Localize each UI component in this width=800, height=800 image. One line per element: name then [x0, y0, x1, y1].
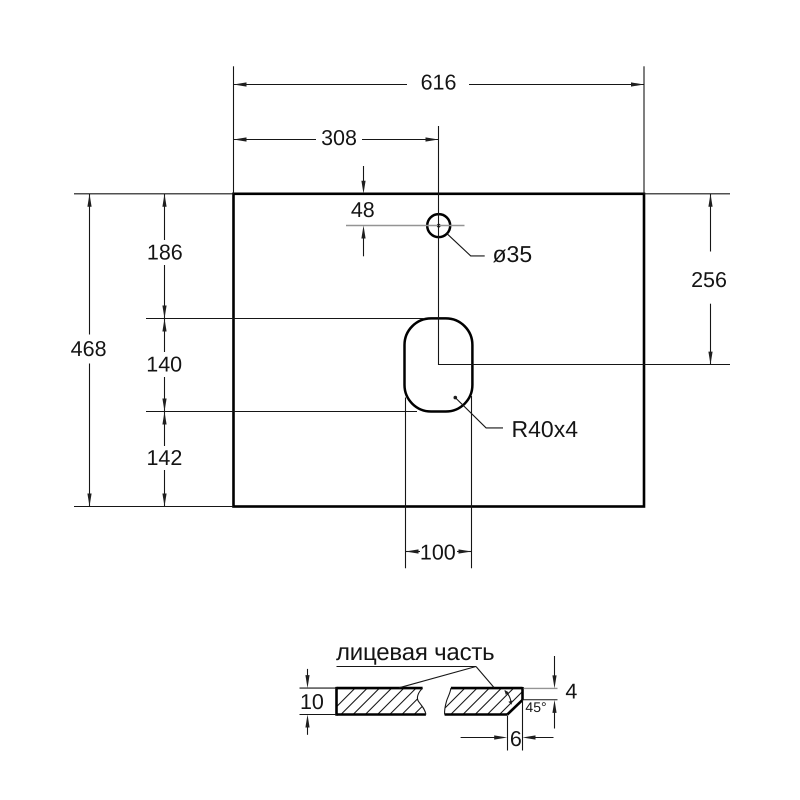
- extension line rect bottom to left: [74, 506, 234, 508]
- centerline horizontal through faucet hole (gray): [346, 225, 465, 227]
- hatching right slab segment: [437, 687, 552, 717]
- drain cutout R40x4: [405, 318, 473, 411]
- extension line cutout bottom to left: [146, 411, 417, 413]
- extension line left top (616/308): [233, 66, 235, 194]
- svg-text:100: 100: [420, 540, 456, 564]
- svg-text:6: 6: [510, 727, 522, 751]
- right slab segment outline: [445, 687, 523, 715]
- dimension 100: [406, 540, 472, 564]
- dimension 256: [691, 194, 727, 365]
- countertop outline (plan view): [234, 194, 645, 507]
- label leader: лицевая часть: [336, 639, 494, 688]
- extension lines cutout to 100 dim: [405, 398, 407, 569]
- 45 degree angle mark: [504, 690, 546, 715]
- dimension 4: [552, 656, 577, 729]
- extension line slab top right (gray): [524, 687, 558, 689]
- dimension 186: [147, 194, 183, 319]
- dimension 308: [234, 126, 439, 150]
- faucet hole circle ø35: [427, 214, 450, 237]
- svg-text:лицевая часть: лицевая часть: [336, 639, 494, 666]
- dimension 142: [146, 412, 182, 507]
- svg-text:186: 186: [147, 240, 183, 264]
- extension/centerline vertical through hole down to cutout center, then right to 256 dim: [439, 126, 731, 365]
- extension lines for 6: [507, 716, 509, 751]
- left slab segment outline: [337, 687, 426, 716]
- extension line rect top to right (for 256): [644, 193, 730, 195]
- faucet hole center dot: [437, 224, 441, 228]
- leader R40x4 with dot: [454, 396, 579, 442]
- extension line cutout top to left: [146, 318, 425, 320]
- svg-text:10: 10: [300, 690, 324, 714]
- svg-text:468: 468: [71, 337, 107, 361]
- extension line right top (616): [643, 66, 645, 194]
- dimension 6: [461, 727, 554, 751]
- svg-text:142: 142: [146, 446, 182, 470]
- svg-text:48: 48: [351, 198, 375, 222]
- dimension 10: [300, 669, 324, 735]
- extension lines for 10: [300, 687, 337, 689]
- svg-text:45°: 45°: [525, 699, 546, 715]
- dimension 468: [71, 194, 107, 507]
- svg-text:256: 256: [691, 268, 727, 292]
- svg-text:ø35: ø35: [493, 241, 533, 267]
- svg-text:308: 308: [321, 126, 357, 150]
- extension line chamfer corner right: [523, 699, 558, 701]
- svg-text:4: 4: [565, 680, 577, 704]
- dimension 140: [146, 318, 182, 411]
- extension line rect top to left: [74, 193, 234, 195]
- break squiggle left segment: [417, 688, 425, 714]
- svg-text:616: 616: [421, 71, 457, 95]
- hatching left slab segment: [327, 687, 455, 717]
- svg-text:R40x4: R40x4: [512, 416, 579, 442]
- svg-text:140: 140: [146, 353, 182, 377]
- leader ø35: [447, 233, 533, 267]
- dimension 48: [351, 166, 375, 256]
- dimension 616: [234, 71, 645, 95]
- break squiggle right segment: [445, 688, 451, 714]
